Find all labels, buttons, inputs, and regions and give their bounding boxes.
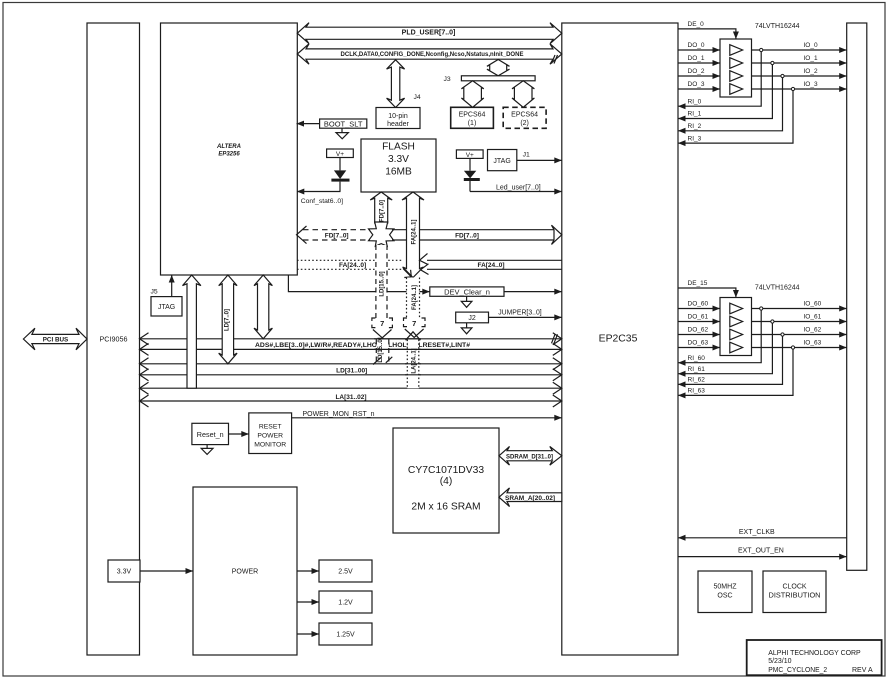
svg-text:V+: V+ [466,152,474,159]
svg-text:EP2C35: EP2C35 [599,334,638,345]
bus FD[7..0] to EP2C35 [392,225,562,244]
buffer 74LVTH16244 [720,285,800,356]
svg-text:J2: J2 [468,315,476,322]
DEV_Clear_n gnd arrow [461,296,472,307]
wire DO_60 [678,301,720,312]
svg-text:SDRAM_D[31..0]: SDRAM_D[31..0] [506,453,553,460]
svg-text:RI_3: RI_3 [688,135,702,142]
svg-text:PMC_CYCLONE_2: PMC_CYCLONE_2 [768,667,827,674]
svg-text:Led_user[7..0]: Led_user[7..0] [496,185,541,192]
bus FA[24..0] dotted from ALTERA [297,260,411,277]
svg-text:7: 7 [412,319,416,328]
svg-text:1.2V: 1.2V [338,600,353,607]
wire Reset_n to monitor [229,431,249,437]
wire DEV_Clear_n to EP2C35 [504,289,562,295]
svg-text:DO_63: DO_63 [688,340,709,347]
bus J3 to EPCS64(2) [512,81,534,108]
vertical bus LD[15..0] dashed [376,245,387,318]
svg-text:IO_1: IO_1 [804,55,818,62]
svg-text:(2): (2) [520,120,529,127]
wire 3.3V to POWER [140,568,193,574]
svg-text:DO_61: DO_61 [688,314,709,321]
svg-text:FD[7..0]: FD[7..0] [455,232,479,239]
svg-text:LD[15..0]: LD[15..0] [380,271,386,296]
vertical bus FA[24..1] below FLASH [380,192,424,278]
svg-text:1.25V: 1.25V [336,632,355,639]
buffer 74LVTH16244 [720,23,800,97]
svg-text:header: header [387,121,409,128]
svg-text:IO_63: IO_63 [804,340,822,347]
svg-text:EXT_OUT_EN: EXT_OUT_EN [738,548,784,555]
junction star FD [369,222,394,246]
svg-text:IO_3: IO_3 [804,81,818,88]
svg-text:LA[24..1]: LA[24..1] [412,348,418,373]
svg-text:IO_62: IO_62 [804,327,822,334]
svg-text:DE_15: DE_15 [688,280,708,287]
line segments over verticals [374,339,421,375]
svg-text:POWER_MON_RST_n: POWER_MON_RST_n [303,411,375,418]
local bus line 1 (ADS) [140,333,562,345]
break mark on ADS line [552,334,558,343]
svg-text:FA[24..1]: FA[24..1] [412,219,418,244]
wire EXT_OUT_EN [678,548,847,560]
svg-text:2.5V: 2.5V [338,569,353,576]
svg-text:EP3256: EP3256 [218,151,240,157]
local bus line 2 [140,343,562,355]
wire EXT_CLKB [678,529,847,541]
svg-text:10-pin: 10-pin [388,113,408,120]
wire DO_63 [678,340,720,351]
arrow into local bus (FA) [405,329,424,337]
J3 bar [444,76,536,83]
svg-text:7: 7 [380,319,384,328]
title block [747,640,882,675]
svg-text:DISTRIBUTION: DISTRIBUTION [769,593,821,600]
J3 vertical bus [487,60,510,76]
EPCS64 (2) dashed [503,107,546,128]
wire DE_15 [678,280,739,297]
vertical bus LD[15..0] dashed lower [373,337,392,364]
IO connector bar [847,23,867,570]
svg-text:FLASH: FLASH [382,142,415,153]
svg-text:EPCS64: EPCS64 [511,112,538,119]
wire IO_60 [752,301,847,312]
PCI9056 bridge [87,23,140,655]
svg-text:J1: J1 [523,152,530,159]
svg-text:DO_0: DO_0 [688,42,705,49]
svg-text:FA[24..0]: FA[24..0] [477,262,504,269]
svg-text:J4: J4 [414,94,421,101]
J4 vertical bus [387,60,421,108]
svg-text:IO_60: IO_60 [804,301,822,308]
svg-text:FD[7..0]: FD[7..0] [380,200,386,222]
svg-text:RI_1: RI_1 [688,111,702,118]
wire to 1.25V [297,631,319,637]
svg-text:FD[7..0]: FD[7..0] [325,232,349,239]
POWER block [193,487,297,655]
ALTERA EP3256 CPLD [161,23,298,275]
svg-text:ALPHI TECHNOLOGY CORP: ALPHI TECHNOLOGY CORP [768,650,861,657]
local bus line 5 (LA) [140,382,562,394]
svg-text:LA[31..02]: LA[31..02] [335,394,366,401]
svg-text:POWER: POWER [257,432,283,439]
V+ supply (flash) [327,149,354,158]
wire DE_0 [678,21,739,39]
vertical bus ALTERA to LD [219,275,237,364]
svg-text:ALTERA: ALTERA [216,144,241,150]
wire DO_0 [678,42,720,53]
svg-text:DO_60: DO_60 [688,301,709,308]
SRAM CY7C1071DV33 [393,428,499,533]
wire IO_2 [752,68,847,79]
wire Conf_stat to ALTERA [297,189,343,206]
svg-text:DO_1: DO_1 [688,55,705,62]
svg-text:CY7C1071DV33: CY7C1071DV33 [408,465,484,476]
svg-text:JUMPER[3..0]: JUMPER[3..0] [498,309,542,316]
50MHZ OSC box [698,571,752,613]
local bus line 4 [140,369,562,381]
J2 gnd arrow [461,323,472,334]
2.5V box [319,560,372,582]
svg-text:RI_0: RI_0 [688,98,702,105]
PCI BUS arrow [23,328,87,350]
Reset_n gnd arrow [201,445,213,455]
svg-text:DO_62: DO_62 [688,327,709,334]
svg-text:DEV_Clear_n: DEV_Clear_n [444,287,490,296]
svg-text:LD[31..00]: LD[31..00] [336,367,367,374]
vertical bus FD[7..0] below FLASH [370,192,392,223]
wire RI_1 [678,65,772,122]
wire DO_3 [678,81,720,92]
svg-text:PCI9056: PCI9056 [100,334,128,343]
svg-text:Conf_stat6..0]: Conf_stat6..0] [301,198,343,205]
wire RI_63 [678,349,793,398]
svg-text:JTAG: JTAG [493,158,510,165]
wire DEV_Clear_n from ALTERA [288,275,429,295]
bus FA[24..0] solid to EP2C35 [420,254,562,275]
svg-text:FA[24..0]: FA[24..0] [339,262,366,269]
DEV_Clear_n box [430,287,504,297]
svg-text:(1): (1) [468,120,477,127]
arrow into local bus (LD) [373,330,392,338]
wire RI_60 [678,310,761,366]
3.3V supply box [108,560,140,582]
width tag 7 (FA) [404,318,426,328]
svg-text:5/23/10: 5/23/10 [768,658,791,665]
FLASH 16MB [361,139,436,192]
wire DO_61 [678,314,720,325]
vertical bus ALTERA to ADS [254,275,272,339]
svg-text:RI_62: RI_62 [688,377,706,384]
svg-text:LD[7..0]: LD[7..0] [224,309,230,331]
width tag 7 (LD) [372,318,393,328]
wire J1 to EP2C35 [517,152,562,164]
wire JUMPER[3..0] [489,309,562,320]
svg-text:RI_63: RI_63 [688,388,706,395]
vertical bus FA[24..1] dotted [407,278,420,319]
svg-text:16MB: 16MB [385,167,412,178]
vertical bus LA[24..1] dotted lower [406,332,421,388]
svg-text:RI_2: RI_2 [688,123,702,130]
svg-text:3.3V: 3.3V [388,154,409,165]
svg-text:74LVTH16244: 74LVTH16244 [755,23,800,30]
10-pin header [376,108,420,129]
wire POWER_MON_RST_n [292,411,562,421]
svg-text:CLOCK: CLOCK [782,584,806,591]
svg-text:EXT_CLKB: EXT_CLKB [739,529,775,536]
diode D1 [331,158,349,192]
RESET POWER MONITOR box [249,413,292,454]
JTAG header J1 [488,150,517,171]
wire to 1.2V [297,599,319,605]
svg-text:DE_0: DE_0 [688,21,705,28]
svg-text:V+: V+ [336,151,344,158]
J2 jumper box [456,312,489,323]
BOOT_SLT gnd arrow [336,128,348,139]
wire RI_62 [678,336,783,387]
wire RI_2 [678,78,783,134]
1.2V box [319,591,372,613]
wire RI_3 [678,91,793,147]
wire IO_61 [752,314,847,325]
wire J5 JTAG to ALTERA [169,275,175,297]
V+ supply (led) [456,150,483,159]
bus SDRAM_D[31..0] [499,447,562,466]
svg-text:EPCS64: EPCS64 [459,112,486,119]
wire IO_1 [752,55,847,66]
svg-text:POWER: POWER [232,569,258,576]
wire IO_62 [752,327,847,338]
JTAG header J5 [151,297,182,316]
CLOCK DISTRIBUTION box [763,571,826,613]
svg-text:RESET: RESET [259,423,282,430]
BOOT_SLT box [297,119,367,128]
svg-text:50MHZ: 50MHZ [714,584,738,591]
bus FD[7..0] dashed to ALTERA [297,226,371,244]
svg-text:OSC: OSC [717,593,732,600]
svg-text:REV A: REV A [852,667,873,674]
svg-text:RI_61: RI_61 [688,366,706,373]
svg-text:DCLK,DATA0,CONFIG_DONE,Nconfig: DCLK,DATA0,CONFIG_DONE,Nconfig,Ncso,Nsta… [341,51,524,58]
svg-text:PLD_USER[7..0]: PLD_USER[7..0] [402,30,456,37]
bus PLD_USER[7..0] [297,23,562,44]
diode D2 [464,158,480,191]
svg-text:ADS#,LBE[3..0]#,LW/R#,READY#,L: ADS#,LBE[3..0]#,LW/R#,READY#,LHOLD,LHOLD… [255,342,470,349]
wire RI_61 [678,323,772,377]
svg-text:JTAG: JTAG [158,304,175,311]
svg-text:(4): (4) [440,476,453,487]
wire IO_0 [752,42,847,53]
svg-text:IO_61: IO_61 [804,314,822,321]
wire DO_62 [678,327,720,338]
wire Led_user[7..0] [470,185,562,195]
1.25V box [319,623,372,645]
svg-text:DO_2: DO_2 [688,68,705,75]
svg-text:IO_0: IO_0 [804,42,818,49]
svg-text:3.3V: 3.3V [117,569,132,576]
wire RI_0 [678,52,761,110]
wire IO_3 [752,81,847,92]
Reset_n box [192,423,229,444]
local bus line 3 (LD) [140,358,562,370]
bus DCLK config signals [297,44,562,64]
svg-text:RI_60: RI_60 [688,355,706,362]
svg-text:PCI BUS: PCI BUS [43,336,69,343]
local bus line 6 [140,395,562,407]
svg-text:J5: J5 [151,289,158,296]
wire DO_1 [678,55,720,66]
wire DO_2 [678,68,720,79]
svg-text:DO_3: DO_3 [688,81,705,88]
svg-text:FA[24..1]: FA[24..1] [412,285,418,310]
svg-text:2M x 16 SRAM: 2M x 16 SRAM [411,502,480,513]
svg-text:Reset_n: Reset_n [197,430,224,439]
svg-text:J3: J3 [444,76,451,83]
vertical bus ALTERA to LA [183,275,201,388]
bus J3 to EPCS64(1) [461,81,483,108]
wire IO_63 [752,340,847,351]
EP2C35 FPGA [562,23,678,655]
bus SRAM_A[20..02] [499,488,562,507]
svg-text:SRAM_A[20..02]: SRAM_A[20..02] [505,495,555,502]
svg-text:74LVTH16244: 74LVTH16244 [755,285,800,292]
svg-text:IO_2: IO_2 [804,68,818,75]
svg-text:MONITOR: MONITOR [254,441,286,448]
wire to 2.5V [297,568,319,574]
EPCS64 (1) [451,107,494,128]
svg-text:BOOT_SLT: BOOT_SLT [324,119,363,128]
